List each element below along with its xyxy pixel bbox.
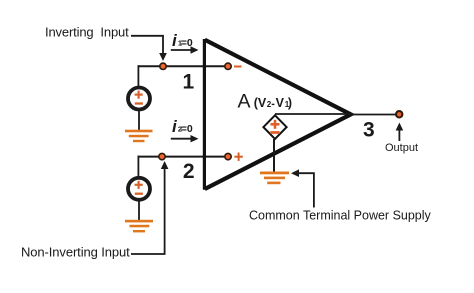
arrowhead: callout pointing left to ground G3 bbox=[291, 169, 299, 177]
non-inverting pin terminal dot bbox=[225, 153, 231, 159]
svg-text:Inverting Input: Inverting Input bbox=[45, 25, 129, 40]
minus sign at inverting pin bbox=[234, 66, 242, 68]
wire: V2 bottom connection bbox=[138, 200, 140, 221]
svg-text:Output: Output bbox=[385, 142, 418, 154]
wire: V1 top connection bbox=[137, 65, 139, 87]
svg-text:3: 3 bbox=[363, 119, 375, 142]
node 1 dot bbox=[160, 63, 166, 69]
wire: inverting input bbox=[138, 65, 229, 67]
wire: non-inverting callout leader bbox=[131, 167, 165, 254]
wire: V2 top connection bbox=[137, 156, 139, 178]
wire: V1 bottom connection bbox=[138, 109, 140, 130]
svg-text:Non-Inverting Input: Non-Inverting Input bbox=[21, 245, 130, 260]
voltage source V1 bbox=[128, 88, 150, 110]
gain label A (V2-V1) bbox=[238, 91, 293, 113]
voltage source V2 bbox=[128, 178, 150, 200]
wire: common terminal callout leader bbox=[297, 173, 314, 207]
svg-text:A: A bbox=[238, 91, 251, 113]
svg-text:2: 2 bbox=[267, 100, 272, 109]
ground G2 bbox=[125, 220, 153, 233]
svg-text:(V: (V bbox=[254, 96, 267, 110]
dependent source diamond bbox=[263, 115, 286, 139]
svg-text:V: V bbox=[276, 96, 285, 110]
current label i2=0 bbox=[172, 117, 193, 136]
ground G3 (common terminal) bbox=[260, 172, 289, 185]
arrowhead: callout pointing down to node 1 bbox=[159, 53, 167, 61]
inverting pin terminal dot bbox=[225, 63, 231, 69]
node 2 dot bbox=[159, 153, 165, 159]
plus sign at non-inverting pin bbox=[234, 153, 242, 161]
op-amp triangle U1: left edge bbox=[203, 39, 206, 190]
svg-text:=0: =0 bbox=[181, 123, 193, 135]
wire: non-inverting input bbox=[138, 156, 229, 158]
arrow: i2 current direction bbox=[171, 138, 192, 140]
wire: dependent source output to apex bbox=[275, 113, 352, 115]
op-amp triangle U1: hypotenuse edges bbox=[205, 40, 351, 189]
wire: dependent source to common ground bbox=[273, 139, 275, 172]
svg-text:Common Terminal Power Supply: Common Terminal Power Supply bbox=[249, 208, 432, 222]
current label i1=0 bbox=[172, 31, 193, 50]
svg-text:): ) bbox=[288, 96, 292, 110]
wire: output bbox=[352, 114, 396, 116]
svg-text:2: 2 bbox=[183, 160, 195, 183]
svg-text:1: 1 bbox=[183, 71, 195, 94]
arrowhead: callout pointing up to node 2 bbox=[161, 161, 169, 169]
ground G1 bbox=[125, 130, 153, 143]
arrow: i1 current direction bbox=[171, 49, 192, 51]
output terminal dot bbox=[396, 111, 402, 117]
arrow: output callout pointing up bbox=[398, 128, 400, 141]
wire: inverting input callout leader bbox=[131, 36, 163, 55]
